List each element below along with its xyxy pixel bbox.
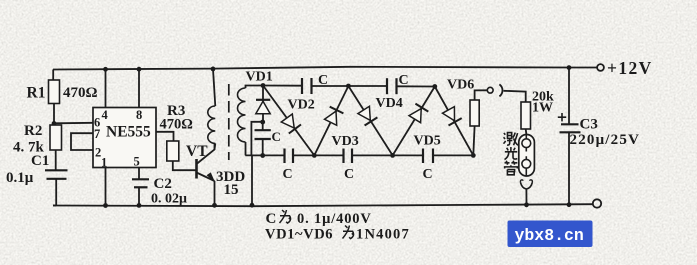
node top rail C3 bbox=[567, 65, 572, 70]
node bottom C2 bbox=[137, 203, 142, 208]
svg-text:R2: R2 bbox=[24, 123, 42, 139]
node B1 bbox=[312, 153, 317, 158]
svg-text:0. 02μ: 0. 02μ bbox=[151, 192, 187, 207]
diode VD3 bbox=[325, 111, 337, 125]
svg-text:470Ω: 470Ω bbox=[160, 117, 193, 133]
capacitor C1 bbox=[45, 169, 68, 171]
svg-text:8: 8 bbox=[136, 108, 142, 122]
svg-text:VD1~VD6: VD1~VD6 bbox=[265, 227, 333, 243]
svg-text:C: C bbox=[344, 167, 354, 182]
svg-text:ybx8.cn: ybx8.cn bbox=[515, 226, 584, 245]
svg-text:C: C bbox=[399, 73, 409, 88]
svg-text:5: 5 bbox=[134, 155, 140, 169]
wire pin5 to C2 bbox=[138, 168, 140, 180]
transformer T1 primary winding bbox=[208, 106, 215, 144]
glyph guan laser bbox=[505, 161, 518, 175]
wire bottom row seg4 bbox=[433, 154, 473, 156]
wire left rail upper bbox=[52, 70, 54, 81]
node J1 bbox=[260, 120, 265, 125]
svg-text:+12V: +12V bbox=[607, 58, 653, 78]
diode VD1 bbox=[262, 86, 264, 102]
svg-text:4: 4 bbox=[102, 108, 109, 122]
svg-text:R1: R1 bbox=[27, 85, 46, 102]
node top rail pin8 bbox=[137, 67, 142, 72]
wire connector to 20k bbox=[504, 91, 526, 102]
wire R1 to R2 bbox=[53, 104, 55, 126]
wire R2 to C1 bbox=[55, 150, 57, 170]
svg-text:C3: C3 bbox=[580, 117, 598, 133]
svg-text:C1: C1 bbox=[31, 153, 49, 169]
laser tube pigtail bbox=[521, 183, 533, 190]
wire pin8 up bbox=[138, 69, 140, 107]
svg-text:VD3: VD3 bbox=[332, 134, 359, 149]
wire secondary bottom bbox=[245, 142, 247, 155]
diode VD5 bbox=[409, 109, 421, 123]
capacitor C bot3 bbox=[422, 149, 424, 164]
capacitor C bot2 bbox=[342, 149, 344, 164]
wire ladder bottom row bbox=[245, 154, 284, 156]
transformer T1 primary feed bbox=[213, 69, 215, 106]
connector plug circle bbox=[487, 87, 493, 93]
svg-text:VD2: VD2 bbox=[288, 98, 315, 113]
wire diagonal T1-B2 bbox=[348, 86, 392, 155]
node R1-R2 pin6 junction bbox=[52, 121, 57, 126]
diode VD2 bbox=[281, 114, 294, 128]
svg-text:1: 1 bbox=[101, 156, 107, 170]
node B3 bbox=[471, 153, 476, 158]
terminal bottom right bbox=[593, 199, 601, 207]
svg-text:0. 1μ/400V: 0. 1μ/400V bbox=[297, 211, 372, 227]
wire bottom rail bbox=[53, 204, 593, 206]
node bottom laser bbox=[524, 202, 529, 207]
resistor 20k bbox=[521, 102, 531, 129]
svg-text:C: C bbox=[318, 73, 328, 88]
wire 20k to tube bbox=[525, 129, 528, 135]
svg-text:VD5: VD5 bbox=[414, 134, 441, 149]
diode VD4 bbox=[358, 106, 370, 120]
node top rail pin4 bbox=[103, 67, 108, 72]
svg-text:VD4: VD4 bbox=[376, 96, 403, 111]
node T0 bbox=[261, 83, 266, 88]
svg-text:15: 15 bbox=[224, 182, 239, 198]
capacitor C below VD1 bbox=[262, 122, 264, 130]
diode VD6 bbox=[443, 107, 455, 121]
node B0 bbox=[260, 153, 265, 158]
node bottom ladder bbox=[250, 203, 255, 208]
wire emitter down bbox=[214, 181, 216, 205]
laser tube body bbox=[519, 135, 535, 177]
plus sign C3 bbox=[558, 113, 566, 121]
capacitor C top2 bbox=[386, 78, 388, 94]
svg-text:C: C bbox=[266, 211, 277, 227]
node top rail transformer bbox=[211, 67, 216, 72]
resistor bleeder bbox=[473, 126, 474, 155]
resistor R3 bbox=[167, 141, 179, 161]
wire ladder top row seg1 bbox=[263, 85, 302, 87]
resistor R1 bbox=[49, 80, 60, 104]
wire pin6 left bbox=[54, 122, 93, 125]
svg-text:VT: VT bbox=[186, 143, 208, 160]
transistor VT collector bbox=[197, 143, 215, 164]
svg-text:C: C bbox=[283, 167, 293, 182]
transformer core bbox=[228, 84, 230, 160]
transformer T1 secondary winding bbox=[238, 88, 246, 142]
capacitor C2 bbox=[132, 178, 149, 180]
wire pin3 to R3 bbox=[156, 132, 174, 141]
capacitor C top1 bbox=[301, 78, 303, 94]
wire tube to bottom rail bbox=[525, 189, 527, 205]
node T1 bbox=[346, 84, 351, 89]
wire ladder top row seg3 bbox=[397, 85, 435, 87]
wire C1 to bottom rail bbox=[53, 179, 56, 206]
wire diagonal B1-T1 bbox=[314, 86, 348, 155]
wire pin1 down bbox=[105, 168, 107, 206]
glyph wei line2 bbox=[343, 226, 354, 239]
wire diagonal B2-T2 bbox=[393, 87, 435, 156]
wire J1 bypass left bbox=[251, 122, 262, 156]
svg-text:VD6: VD6 bbox=[447, 78, 474, 93]
transistor VT emitter bbox=[197, 173, 215, 182]
watermark ybx8.cn bbox=[508, 221, 593, 248]
wire diagonal T2-B3 bbox=[435, 87, 474, 156]
wire bottom row seg3 bbox=[352, 154, 423, 156]
node bottom pin1 bbox=[103, 203, 108, 208]
svg-text:C: C bbox=[423, 167, 433, 182]
svg-text:C: C bbox=[272, 129, 281, 144]
wire R3 to base bbox=[173, 161, 197, 170]
svg-text:C2: C2 bbox=[154, 176, 172, 192]
wire C3 to bottom rail bbox=[568, 132, 570, 204]
svg-text:VD1: VD1 bbox=[246, 70, 273, 85]
terminal +12V bbox=[597, 64, 604, 71]
wire diagonal T0-B1 bbox=[263, 86, 314, 156]
wire pin7 loop to pin2 bbox=[71, 133, 93, 150]
wire C2 to bottom rail bbox=[138, 187, 140, 205]
node B2 bbox=[390, 153, 395, 158]
wire ladder top row seg2 bbox=[312, 85, 388, 87]
capacitor C bot1 bbox=[283, 149, 285, 164]
svg-text:NE555: NE555 bbox=[106, 124, 151, 141]
svg-text:470Ω: 470Ω bbox=[63, 85, 98, 101]
node bottom emitter bbox=[212, 203, 217, 208]
laser tube top electrode bbox=[522, 139, 531, 148]
laser tube bottom electrode bbox=[522, 159, 531, 168]
svg-text:0.1μ: 0.1μ bbox=[6, 170, 34, 186]
svg-text:1W: 1W bbox=[532, 101, 553, 116]
node bottom C3 bbox=[567, 202, 572, 207]
connector socket arc bbox=[499, 84, 502, 96]
glyph ji laser bbox=[504, 133, 519, 146]
wire bottom row seg2 bbox=[293, 154, 344, 156]
transistor Q1 VT base bar bbox=[195, 159, 198, 179]
wire top rail bbox=[53, 67, 597, 70]
wire secondary top to node T0 bbox=[246, 86, 264, 89]
IC U1 NE555 box bbox=[93, 108, 156, 168]
svg-text:1N4007: 1N4007 bbox=[356, 227, 410, 243]
node T2 bbox=[432, 84, 437, 89]
glyph guang laser bbox=[505, 147, 518, 160]
svg-text:7: 7 bbox=[94, 127, 100, 141]
resistor R2 bbox=[50, 125, 62, 150]
wire pin4 up bbox=[105, 69, 107, 107]
svg-text:220μ/25V: 220μ/25V bbox=[570, 132, 641, 148]
glyph wei line1 bbox=[280, 210, 291, 223]
wire ladder drop to bottom rail bbox=[251, 156, 253, 206]
wire primary to collector bbox=[214, 144, 217, 150]
wire C3 branch top bbox=[568, 68, 570, 124]
capacitor C3 bbox=[561, 123, 579, 125]
